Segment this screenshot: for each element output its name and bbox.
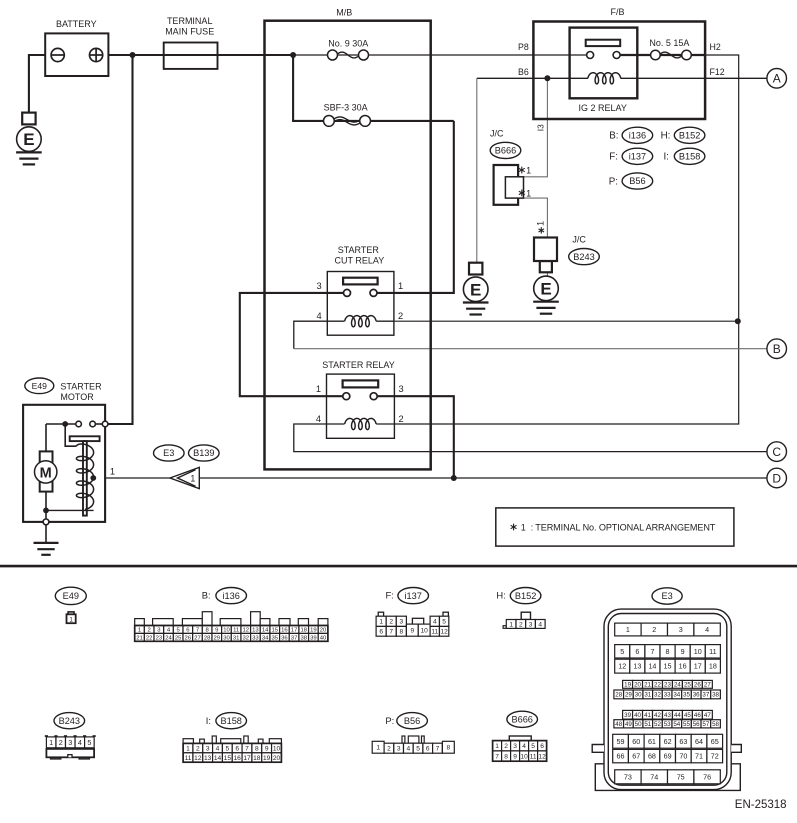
svg-text:13: 13	[252, 628, 259, 634]
svg-text:74: 74	[650, 772, 658, 781]
svg-text:11: 11	[709, 647, 716, 656]
svg-text:1: 1	[398, 281, 403, 291]
wire B6 to left ground (gray)	[476, 78, 478, 263]
svg-text:62: 62	[664, 737, 672, 746]
svg-text:16: 16	[679, 662, 687, 671]
svg-text:50: 50	[635, 721, 642, 728]
svg-text:1: 1	[110, 467, 115, 477]
svg-text:P:: P:	[609, 176, 618, 187]
svg-text:2: 2	[398, 311, 403, 321]
svg-text:11: 11	[431, 629, 438, 636]
svg-text:2: 2	[519, 621, 523, 628]
svg-text:15: 15	[664, 662, 672, 671]
svg-text:67: 67	[632, 752, 640, 761]
svg-text:I:: I:	[663, 152, 668, 163]
svg-text:20: 20	[273, 755, 281, 762]
wire motor to bottom	[45, 492, 47, 522]
svg-text:4: 4	[407, 746, 411, 753]
svg-text:10: 10	[223, 628, 230, 634]
svg-text:1: 1	[190, 473, 195, 483]
svg-text:3: 3	[529, 621, 533, 628]
svg-text:10: 10	[421, 628, 429, 635]
svg-text:B152: B152	[515, 591, 536, 601]
svg-text:18: 18	[253, 755, 261, 762]
svg-text:B: B	[773, 342, 781, 356]
connector E49 pinout	[55, 587, 86, 604]
svg-text:MOTOR: MOTOR	[60, 392, 94, 402]
inline connector arrow pin 1	[170, 467, 199, 488]
svg-text:12: 12	[243, 628, 250, 634]
svg-text:4: 4	[433, 619, 437, 626]
svg-text:23: 23	[664, 682, 671, 689]
svg-text:3: 3	[397, 746, 401, 753]
svg-text:3: 3	[317, 281, 322, 291]
svg-text:2: 2	[652, 625, 656, 634]
svg-text:34: 34	[673, 692, 680, 699]
svg-text:F12: F12	[710, 67, 725, 77]
svg-text:19: 19	[263, 755, 271, 762]
svg-text:2: 2	[196, 745, 200, 752]
node D	[767, 468, 787, 488]
svg-text:63: 63	[679, 737, 687, 746]
svg-text:11: 11	[530, 753, 537, 760]
svg-text:15: 15	[224, 755, 232, 762]
svg-text:CUT RELAY: CUT RELAY	[335, 256, 385, 266]
coil tap dot to pin 1	[90, 475, 96, 481]
node B	[767, 339, 787, 359]
svg-text:11: 11	[185, 755, 192, 762]
svg-text:i137: i137	[405, 591, 422, 601]
label *1 upper	[521, 167, 523, 174]
svg-text:8: 8	[666, 647, 670, 656]
wire node D row starter motor to D	[93, 477, 767, 479]
svg-text:J/C: J/C	[572, 235, 586, 245]
svg-text:14: 14	[214, 755, 222, 762]
svg-text:8: 8	[255, 745, 259, 752]
svg-text:17: 17	[694, 662, 702, 671]
junction dot battery feed	[130, 52, 136, 58]
svg-text:49: 49	[625, 721, 632, 728]
svg-text:STARTER: STARTER	[60, 381, 102, 391]
motor M symbol	[40, 451, 53, 491]
wire starter cut relay pin 3 to starter relay pin 1	[240, 293, 347, 396]
svg-text:43: 43	[664, 712, 671, 719]
svg-text:33: 33	[664, 692, 671, 699]
svg-text:4: 4	[78, 738, 82, 747]
svg-text:19: 19	[310, 628, 317, 634]
svg-text:4: 4	[316, 414, 321, 424]
svg-text:35: 35	[683, 692, 690, 699]
junction dot B6/I3	[544, 75, 550, 81]
chassis ground under starter motor	[45, 525, 47, 543]
svg-text:2: 2	[389, 619, 393, 626]
wire junction down to starter motor	[105, 55, 132, 424]
svg-text:37: 37	[702, 692, 709, 699]
svg-text:44: 44	[674, 712, 681, 719]
svg-text:6: 6	[540, 743, 544, 750]
svg-text:42: 42	[654, 712, 661, 719]
svg-text:E3: E3	[163, 448, 174, 458]
svg-text:2: 2	[504, 743, 508, 750]
svg-text:28: 28	[615, 692, 622, 699]
svg-text:B666: B666	[495, 146, 516, 156]
svg-text:54: 54	[673, 721, 680, 728]
svg-text:57: 57	[702, 721, 709, 728]
svg-text:61: 61	[648, 737, 656, 746]
svg-text:5: 5	[87, 738, 91, 747]
wire No.9 fuse row to F/B P8 and relay	[293, 54, 590, 56]
ground left E (B6)	[469, 263, 482, 275]
svg-text:1: 1	[69, 617, 73, 624]
svg-text:J/C: J/C	[490, 129, 504, 139]
svg-text:E3: E3	[661, 591, 672, 601]
svg-text:76: 76	[703, 772, 711, 781]
svg-text:20: 20	[634, 682, 641, 689]
svg-text:40: 40	[634, 712, 641, 719]
svg-text:4: 4	[705, 625, 709, 634]
svg-text:E49: E49	[63, 591, 79, 601]
svg-text:B6: B6	[518, 67, 529, 77]
svg-text:D: D	[772, 471, 781, 485]
svg-text:17: 17	[291, 628, 298, 634]
connector refs E3 B139	[154, 445, 185, 461]
svg-text:7: 7	[389, 629, 393, 636]
svg-text:MAIN FUSE: MAIN FUSE	[165, 27, 214, 37]
svg-text:19: 19	[624, 682, 631, 689]
svg-text:1 : TERMINAL No. OPTIONAL ARR: 1 : TERMINAL No. OPTIONAL ARRANGEMENT	[521, 522, 716, 532]
svg-text:EN-25318: EN-25318	[735, 799, 787, 811]
svg-text:21: 21	[644, 682, 651, 689]
svg-text:72: 72	[711, 752, 719, 761]
svg-text:16: 16	[281, 628, 288, 634]
svg-text:1: 1	[376, 745, 380, 752]
svg-text:39: 39	[624, 712, 631, 719]
motor top contacts	[62, 421, 68, 427]
IG 2 relay	[570, 28, 638, 99]
svg-text:M/B: M/B	[336, 7, 352, 17]
svg-text:9: 9	[215, 628, 218, 634]
junction dot M/B branch	[290, 52, 296, 58]
svg-text:7: 7	[196, 628, 199, 634]
svg-text:i137: i137	[629, 152, 646, 162]
svg-text:59: 59	[617, 737, 625, 746]
svg-text:H:: H:	[661, 131, 671, 142]
svg-text:68: 68	[648, 752, 656, 761]
svg-text:4: 4	[317, 311, 322, 321]
svg-text:12: 12	[194, 755, 202, 762]
svg-text:2: 2	[387, 746, 391, 753]
svg-text:12: 12	[440, 629, 448, 636]
svg-text:53: 53	[664, 721, 671, 728]
svg-text:5: 5	[442, 619, 446, 626]
wire IG2 relay output to No.5 fuse to H2	[620, 54, 705, 56]
svg-text:10: 10	[273, 745, 281, 752]
svg-text:10: 10	[694, 647, 702, 656]
wire B6 row to F12 and node A	[477, 77, 588, 79]
svg-text:3: 3	[68, 738, 72, 747]
svg-text:F:: F:	[609, 152, 618, 163]
svg-text:8: 8	[447, 745, 451, 752]
svg-text:1: 1	[495, 743, 499, 750]
connector B666 pinout	[507, 711, 538, 727]
svg-text:7: 7	[245, 745, 249, 752]
svg-text:5: 5	[620, 647, 624, 656]
svg-text:1: 1	[526, 188, 531, 198]
wire I3 from B6 junction down to J/C B666 (gray)	[524, 78, 548, 177]
svg-text:51: 51	[644, 721, 651, 728]
svg-text:BATTERY: BATTERY	[56, 19, 97, 29]
wire M/B junction down to SBF-3 fuse	[293, 55, 454, 121]
wire J/C B666 down to J/C B243 and ground (gray)	[524, 198, 548, 277]
solenoid coil spring	[76, 444, 93, 509]
svg-text:I:: I:	[206, 715, 211, 726]
svg-text:75: 75	[677, 772, 685, 781]
svg-text:14: 14	[262, 628, 269, 634]
svg-text:2: 2	[399, 414, 404, 424]
svg-text:P8: P8	[518, 42, 529, 52]
svg-text:i136: i136	[629, 131, 646, 141]
motor top contact wires	[46, 423, 76, 425]
svg-text:9: 9	[410, 628, 414, 635]
svg-text:H:: H:	[496, 590, 505, 601]
svg-text:25: 25	[684, 682, 691, 689]
svg-text:70: 70	[679, 752, 687, 761]
svg-text:A: A	[773, 72, 781, 86]
svg-text:6: 6	[426, 746, 430, 753]
svg-text:4: 4	[216, 745, 220, 752]
svg-text:1: 1	[526, 165, 531, 175]
svg-text:3: 3	[206, 745, 210, 752]
svg-text:52: 52	[654, 721, 661, 728]
svg-text:64: 64	[695, 737, 703, 746]
svg-text:46: 46	[694, 712, 701, 719]
svg-text:13: 13	[633, 662, 641, 671]
wire SBF-3 down to starter cut relay pin 1	[374, 121, 454, 293]
svg-text:8: 8	[400, 629, 404, 636]
svg-text:1: 1	[626, 625, 630, 634]
wire battery negative to ground	[29, 55, 51, 113]
svg-text:65: 65	[711, 737, 719, 746]
svg-text:36: 36	[693, 692, 700, 699]
svg-text:3: 3	[400, 619, 404, 626]
svg-text:12: 12	[538, 753, 546, 760]
svg-text:11: 11	[233, 628, 239, 634]
svg-text:B139: B139	[193, 448, 214, 458]
svg-text:13: 13	[204, 755, 212, 762]
svg-text:2: 2	[148, 628, 151, 634]
separator line	[0, 565, 797, 568]
svg-text:B666: B666	[511, 715, 532, 725]
junction connector J/C B243	[534, 238, 557, 262]
svg-text:B56: B56	[629, 176, 645, 186]
svg-text:5: 5	[531, 743, 535, 750]
svg-text:B:: B:	[609, 131, 618, 142]
svg-text:B243: B243	[59, 716, 80, 726]
svg-text:F/B: F/B	[610, 7, 624, 17]
svg-text:B56: B56	[404, 716, 420, 726]
svg-text:45: 45	[684, 712, 691, 719]
svg-text:30: 30	[635, 692, 642, 699]
wire starter cut relay pin 2 to H2 branch	[394, 320, 738, 322]
svg-text:TERMINAL: TERMINAL	[167, 16, 213, 26]
ground battery E	[22, 113, 35, 125]
wire starter relay pin 3 down to node D line	[374, 396, 454, 478]
svg-text:17: 17	[243, 755, 251, 762]
svg-text:E: E	[470, 280, 481, 299]
svg-text:3: 3	[399, 384, 404, 394]
svg-text:No. 9 30A: No. 9 30A	[328, 39, 368, 49]
svg-text:5: 5	[225, 745, 229, 752]
svg-text:STARTER RELAY: STARTER RELAY	[322, 360, 395, 370]
svg-text:1: 1	[49, 738, 53, 747]
svg-text:73: 73	[624, 772, 632, 781]
svg-text:22: 22	[654, 682, 661, 689]
svg-text:38: 38	[712, 692, 719, 699]
note terminal optional arrangement	[496, 508, 734, 546]
svg-text:3: 3	[513, 743, 517, 750]
svg-text:20: 20	[320, 628, 327, 634]
svg-text:24: 24	[674, 682, 681, 689]
svg-text:4: 4	[522, 743, 526, 750]
svg-text:E: E	[23, 130, 34, 149]
svg-text:IG 2 RELAY: IG 2 RELAY	[579, 103, 627, 113]
wire starter cut relay pin 4 to node B	[294, 321, 328, 349]
svg-text:6: 6	[235, 745, 239, 752]
wire starter relay pin 4 to node C	[294, 424, 767, 452]
svg-text:1: 1	[316, 384, 321, 394]
svg-text:31: 31	[644, 692, 651, 699]
wire battery positive main feed to M/B junction	[101, 54, 293, 56]
svg-text:10: 10	[520, 753, 528, 760]
svg-text:41: 41	[644, 712, 651, 719]
connector E3 pinout	[652, 588, 682, 604]
svg-text:15: 15	[271, 628, 278, 634]
svg-text:12: 12	[618, 662, 626, 671]
svg-text:B243: B243	[573, 252, 594, 262]
svg-text:18: 18	[709, 662, 717, 671]
svg-text:1: 1	[379, 619, 383, 626]
svg-text:71: 71	[695, 752, 703, 761]
ground under J/C B243	[540, 261, 552, 272]
svg-text:1: 1	[536, 221, 546, 226]
svg-text:9: 9	[513, 753, 517, 760]
svg-text:14: 14	[648, 662, 656, 671]
svg-text:SBF-3 30A: SBF-3 30A	[324, 103, 368, 113]
svg-text:60: 60	[632, 737, 640, 746]
svg-text:B158: B158	[679, 152, 700, 162]
svg-text:4: 4	[538, 621, 542, 628]
svg-text:No. 5 15A: No. 5 15A	[649, 38, 689, 48]
svg-text:B:: B:	[202, 590, 211, 601]
starter motor E49	[25, 378, 54, 394]
svg-text:48: 48	[615, 721, 622, 728]
svg-text:STARTER: STARTER	[338, 245, 380, 255]
label *1 rotated near B243 wire	[540, 227, 542, 233]
svg-text:9: 9	[681, 647, 685, 656]
svg-text:29: 29	[625, 692, 632, 699]
junction dot cut relay pin2 / H2 branch	[735, 318, 741, 324]
E3 side tabs and feet	[592, 745, 604, 753]
node C	[767, 442, 787, 462]
svg-text:1: 1	[138, 628, 141, 634]
svg-text:5: 5	[416, 746, 420, 753]
wire node B row (gray)	[294, 348, 767, 350]
wire coil bottom to motor negative	[46, 509, 94, 511]
svg-text:18: 18	[300, 628, 307, 634]
svg-text:i136: i136	[223, 591, 240, 601]
svg-text:6: 6	[379, 629, 383, 636]
svg-text:F:: F:	[385, 590, 393, 601]
svg-text:27: 27	[704, 682, 711, 689]
wire H2 down to starter relay pin 2	[394, 55, 738, 424]
svg-text:E: E	[540, 280, 551, 299]
svg-text:E49: E49	[32, 381, 48, 391]
svg-text:69: 69	[664, 752, 672, 761]
label *1 lower	[521, 190, 523, 197]
svg-text:47: 47	[704, 712, 711, 719]
svg-text:26: 26	[694, 682, 701, 689]
svg-text:7: 7	[495, 753, 499, 760]
svg-text:H2: H2	[710, 42, 721, 52]
svg-text:I3: I3	[536, 124, 546, 131]
svg-text:58: 58	[712, 721, 719, 728]
solenoid plunger T bar	[70, 436, 100, 441]
svg-text:7: 7	[436, 746, 440, 753]
solenoid link from switch	[65, 424, 76, 446]
svg-text:7: 7	[650, 647, 654, 656]
svg-text:M: M	[40, 465, 52, 481]
svg-text:56: 56	[693, 721, 700, 728]
svg-text:3: 3	[679, 625, 683, 634]
node A	[767, 69, 787, 89]
svg-text:66: 66	[617, 752, 625, 761]
svg-text:2: 2	[59, 738, 63, 747]
svg-text:8: 8	[504, 753, 508, 760]
svg-text:B158: B158	[220, 716, 241, 726]
svg-text:P:: P:	[385, 715, 394, 726]
svg-text:32: 32	[654, 692, 661, 699]
svg-text:55: 55	[683, 721, 690, 728]
svg-text:1: 1	[186, 745, 190, 752]
svg-text:C: C	[772, 445, 781, 459]
connector B243 pinout	[54, 713, 85, 729]
svg-text:1: 1	[509, 621, 513, 628]
svg-text:9: 9	[265, 745, 269, 752]
svg-text:6: 6	[635, 647, 639, 656]
svg-text:B152: B152	[679, 131, 700, 141]
junction dot D row	[451, 475, 457, 481]
svg-text:16: 16	[233, 755, 241, 762]
